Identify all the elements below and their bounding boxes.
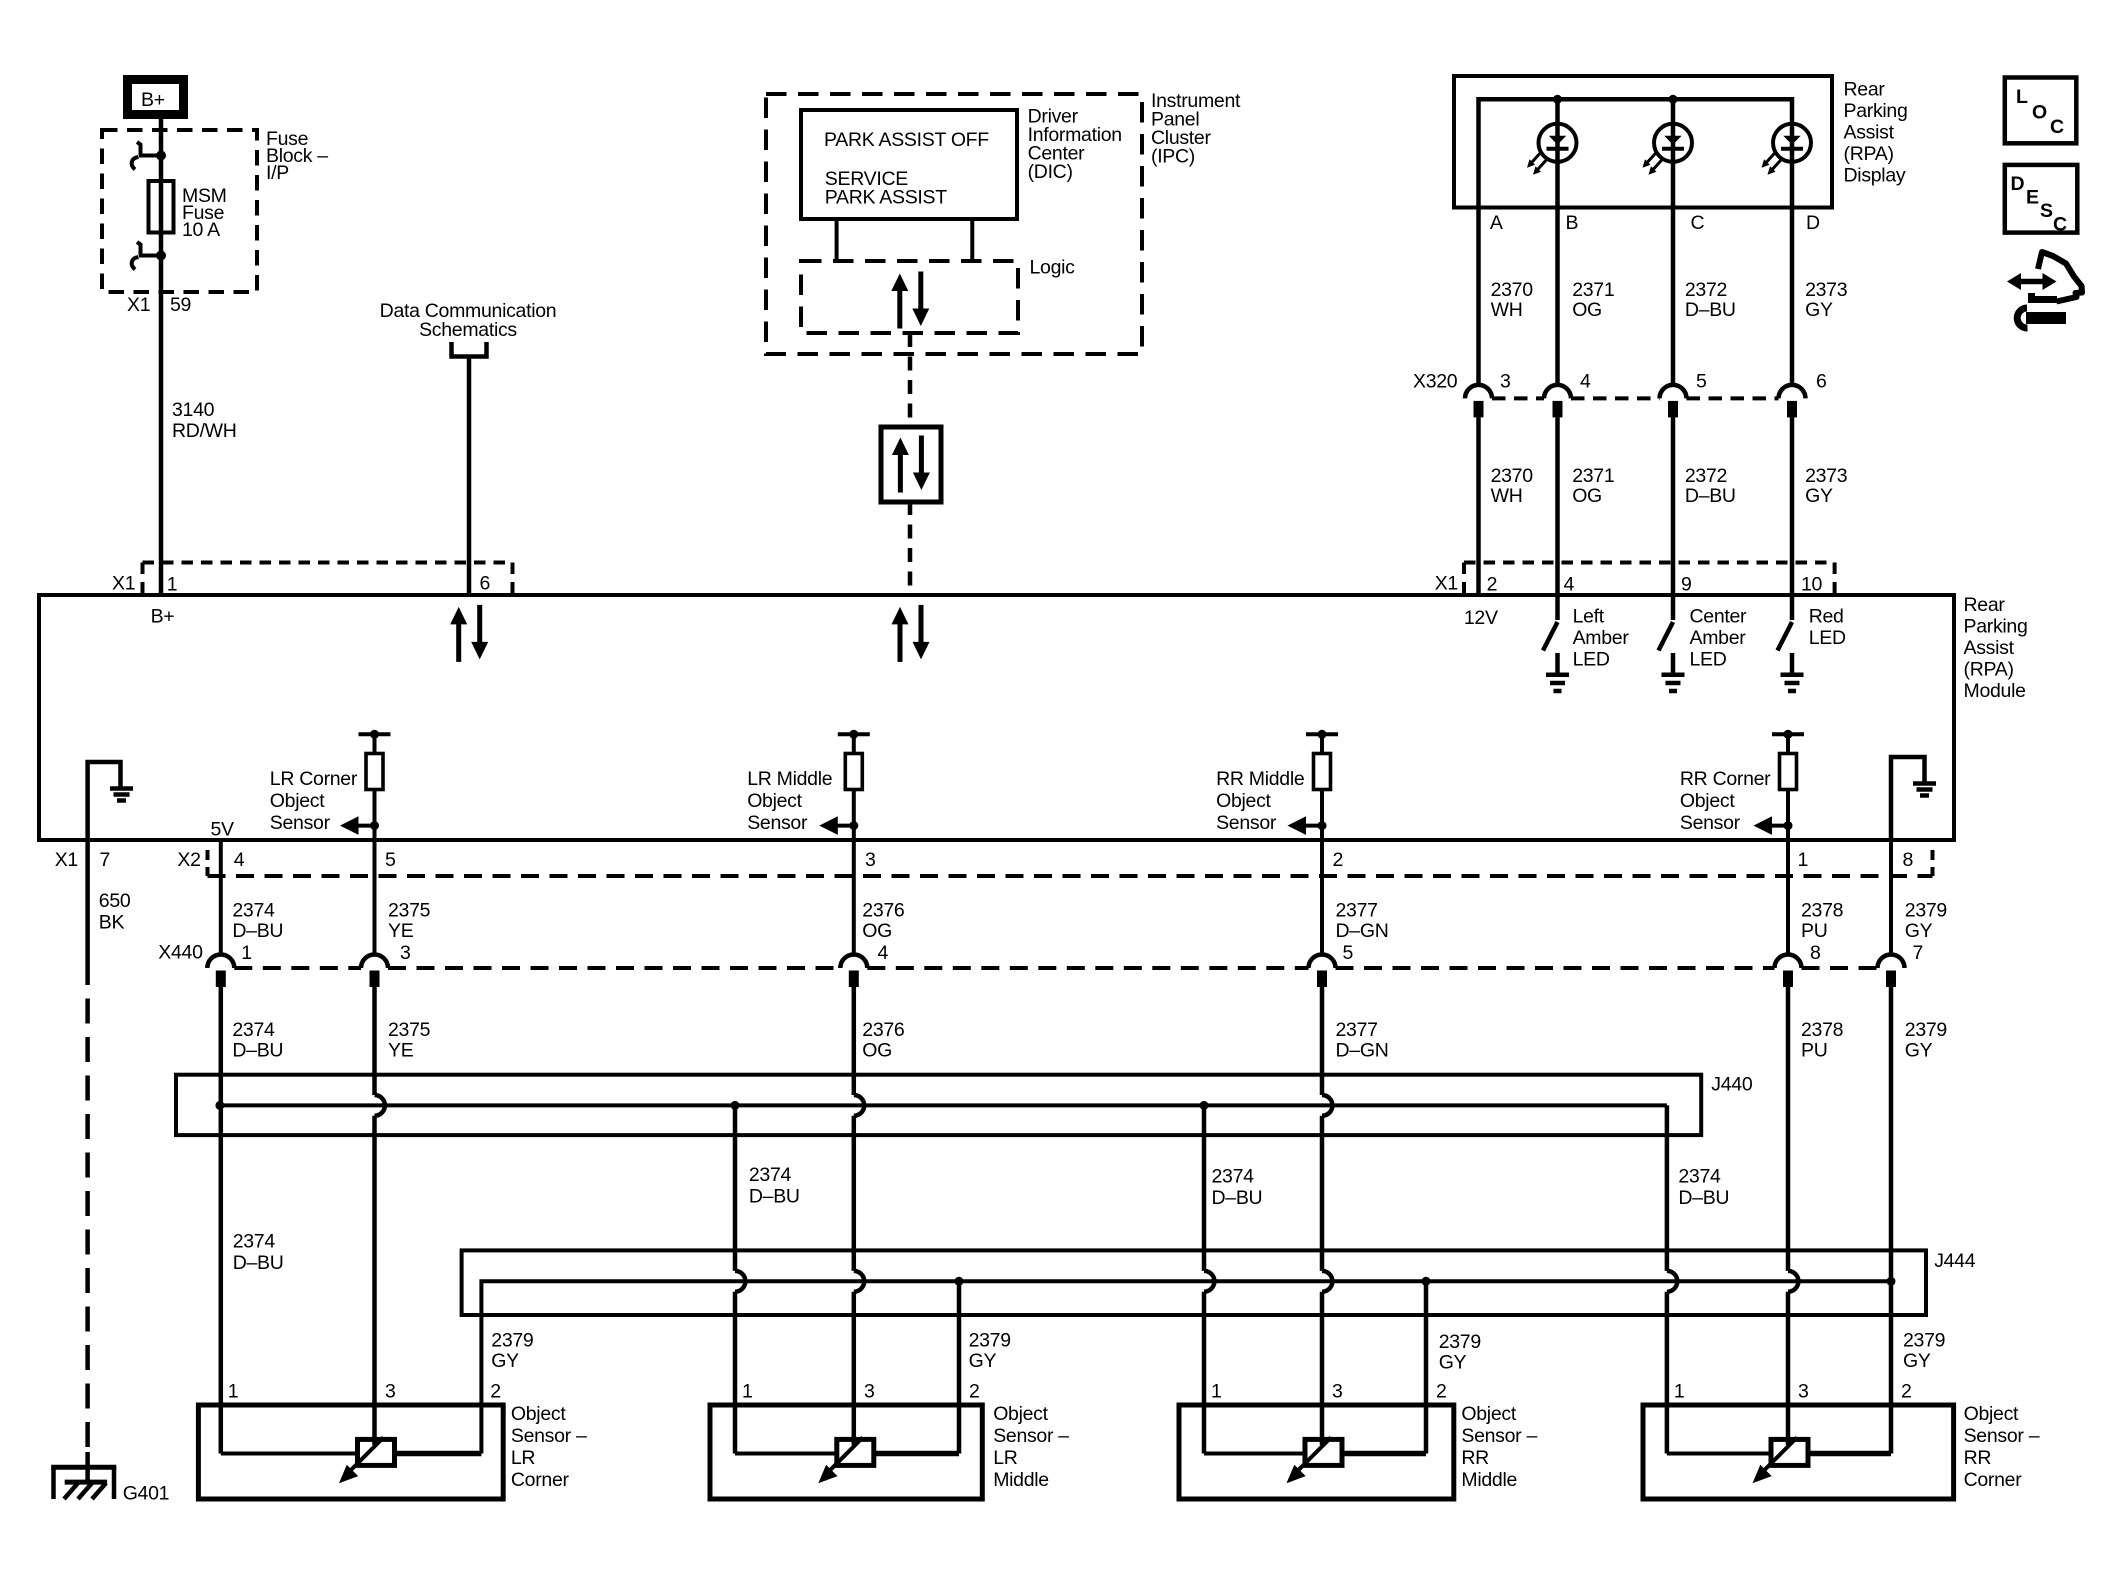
hop of 2376 over J444 bus [854, 1271, 864, 1292]
svg-text:B: B [1566, 212, 1579, 234]
junction node on bus at wire C [1669, 95, 1678, 104]
module serial arrows at IPC data line [892, 605, 930, 662]
svg-text:C: C [2053, 214, 2067, 236]
svg-text:7: 7 [100, 849, 111, 871]
branch wire 2374 to LR middle sensor pin 1 [733, 1105, 738, 1453]
svg-text:X2: X2 [177, 849, 200, 871]
display internal supply bus [1479, 99, 1793, 207]
svg-text:1: 1 [1211, 1381, 1222, 1403]
LR middle object sensor driver resistor [819, 730, 870, 840]
wire A X320 to module [1476, 417, 1481, 595]
object sensor RR corner box [1643, 1405, 1954, 1499]
center amber LED driver switch and ground [1659, 595, 1685, 691]
X2 right bracket tick [1931, 850, 1935, 876]
red LED driver switch and ground [1778, 595, 1804, 691]
svg-text:2: 2 [1436, 1381, 1447, 1403]
hop of RR middle branch over J444 bus [1204, 1271, 1214, 1292]
wire 2379 module to X440 [1889, 840, 1893, 955]
X440 terminal 8 [1775, 955, 1802, 988]
svg-text:3: 3 [1500, 371, 1511, 393]
svg-text:1: 1 [241, 942, 252, 964]
DESC reference icon [2005, 165, 2078, 236]
svg-text:D: D [1806, 212, 1820, 234]
LED center [1643, 124, 1693, 175]
svg-text:2: 2 [490, 1381, 501, 1403]
svg-text:7: 7 [1913, 942, 1924, 964]
svg-text:C: C [1691, 212, 1705, 234]
X320 dashed connector line [1492, 396, 1779, 400]
fuse MSM 10A [149, 181, 227, 241]
svg-text:L: L [2016, 86, 2028, 108]
svg-text:X1: X1 [127, 294, 150, 316]
svg-text:5V: 5V [211, 819, 235, 841]
object sensor RR middle box [1179, 1405, 1454, 1499]
svg-text:1: 1 [1798, 849, 1809, 871]
J440 internal bus [220, 1103, 1667, 1107]
svg-text:X320: X320 [1413, 371, 1458, 393]
wire D display to X320 [1790, 208, 1795, 385]
branch wire 2374 to RR middle sensor pin 1 [1202, 1105, 1207, 1453]
svg-text:RedLED: RedLED [1809, 606, 1846, 650]
svg-text:S: S [2040, 200, 2053, 222]
svg-text:J444: J444 [1934, 1250, 1976, 1272]
svg-text:J440: J440 [1711, 1074, 1753, 1096]
LR corner object sensor driver resistor [340, 730, 391, 840]
svg-text:D: D [2011, 173, 2025, 195]
X320 terminal A [1465, 385, 1492, 418]
wire 2376 X440 to LR middle sensor pin 3 [852, 985, 857, 1446]
svg-text:X440: X440 [158, 942, 203, 964]
wire 2374 X440 to LR corner sensor pin 1 [219, 985, 224, 1454]
serial data dashed wire upper [908, 333, 913, 427]
X2 left bracket tick [206, 850, 210, 876]
splice pack J440 box [176, 1075, 1701, 1135]
clip terminal top [132, 142, 166, 170]
svg-text:8: 8 [1810, 942, 1821, 964]
svg-text:X1: X1 [112, 573, 135, 595]
LED right [1762, 124, 1812, 175]
svg-text:12V: 12V [1464, 607, 1498, 629]
logic dashed box [801, 261, 1018, 333]
module internal ground right [1891, 757, 1936, 840]
X440 dashed connector line [234, 966, 1877, 970]
wire from B+ through fuse to module pin X1-1 [159, 119, 164, 595]
object sensor LR corner element [339, 1437, 395, 1483]
svg-text:4: 4 [1580, 371, 1591, 393]
object sensor LR middle element [818, 1437, 874, 1483]
svg-text:3: 3 [865, 849, 876, 871]
object sensor LR middle box [710, 1405, 982, 1499]
rear parking assist RPA module box [39, 595, 1954, 840]
X320 terminal D [1779, 385, 1806, 418]
wire 2377 X440 to RR middle sensor pin 3 [1320, 985, 1325, 1446]
hop of 2377 over J440 bus [1322, 1095, 1332, 1116]
X440 terminal 1 [207, 955, 234, 988]
svg-text:3: 3 [1332, 1381, 1343, 1403]
svg-text:1: 1 [1674, 1381, 1685, 1403]
module internal ground left [88, 762, 133, 840]
data communication schematics reference [380, 300, 557, 357]
splice pack J444 box [462, 1250, 1926, 1315]
X440 terminal 4 [840, 955, 867, 988]
svg-text:1: 1 [167, 574, 178, 596]
object sensor RR middle element [1287, 1437, 1343, 1483]
object sensor LR corner box [198, 1405, 503, 1499]
module serial arrows at pin 6 [450, 605, 488, 662]
branch wire 2374 to RR corner sensor pin 1 [1665, 1105, 1670, 1453]
svg-text:2: 2 [1487, 574, 1498, 596]
left amber LED driver switch and ground [1543, 595, 1569, 691]
clip terminal bottom [132, 242, 166, 270]
serial data dashed wire lower [908, 501, 913, 595]
svg-text:2: 2 [969, 1381, 980, 1403]
svg-text:2: 2 [1333, 849, 1344, 871]
rear parking assist RPA display box [1454, 76, 1832, 208]
ground wire 650 BK solid segment [85, 840, 90, 960]
svg-text:PARK ASSIST OFF: PARK ASSIST OFF [824, 129, 989, 151]
svg-text:X1: X1 [1435, 573, 1458, 595]
module connector X1 right dashed box [1464, 563, 1835, 594]
hop of RR corner branch over J444 bus [1667, 1271, 1677, 1292]
instrument panel cluster IPC dashed box [766, 94, 1142, 354]
svg-text:B+: B+ [151, 605, 175, 627]
svg-text:4: 4 [878, 942, 889, 964]
RR middle object sensor driver resistor [1288, 730, 1339, 840]
ground G401 [51, 1467, 116, 1499]
wire 2375 X440 to LR corner sensor pin 3 [372, 985, 377, 1446]
J444 internal bus [481, 1281, 1891, 1453]
svg-text:59: 59 [170, 294, 191, 316]
X2 dashed connector line [208, 874, 1933, 878]
svg-text:Logic: Logic [1030, 257, 1076, 279]
svg-text:2: 2 [1901, 1381, 1912, 1403]
wire D X320 to module [1790, 417, 1795, 595]
svg-text:C: C [2050, 116, 2064, 138]
X320 terminal C [1660, 385, 1687, 418]
object sensor RR corner element [1753, 1437, 1809, 1483]
wire C display to X320 [1671, 208, 1676, 385]
module connector X1 left dashed box [143, 563, 513, 594]
wire B inside display [1555, 99, 1560, 207]
junction node J440 bus at LR middle branch [731, 1101, 740, 1110]
X440 terminal 3 [361, 955, 388, 988]
wire C inside display [1671, 99, 1676, 207]
wire 2379 X440 to RR corner sensor pin 2 [1889, 985, 1894, 1454]
branch wire 2379 to LR middle sensor pin 2 [957, 1281, 962, 1453]
hop of 2375 over J440 bus [375, 1095, 385, 1116]
hop of LR middle branch over J444 bus [735, 1271, 745, 1292]
svg-text:3: 3 [864, 1381, 875, 1403]
fuse block I/P dashed box [102, 130, 257, 292]
junction node J444 bus at 2379 wire [1887, 1277, 1896, 1286]
5V supply wire to X2 pin 4 [219, 840, 223, 955]
ground wire 650 BK dashed segment [85, 960, 90, 1452]
wire 2375 module to X440 [373, 840, 377, 955]
svg-text:4: 4 [234, 849, 245, 871]
wire 2378 X440 to RR corner sensor pin 3 [1786, 985, 1791, 1446]
junction node J440 bus at 5V wire [215, 1101, 224, 1110]
wire A display to X320 [1476, 208, 1481, 385]
wire 2377 module to X440 [1320, 840, 1324, 955]
wire B X320 to module [1555, 417, 1560, 595]
wire B display to X320 [1555, 208, 1560, 385]
svg-text:10: 10 [1801, 574, 1823, 596]
junction node J444 bus at LR middle pin2 branch [955, 1277, 964, 1286]
LED left [1527, 124, 1577, 175]
X320 terminal B [1544, 385, 1571, 418]
svg-text:5: 5 [1696, 371, 1707, 393]
X440 terminal 5 [1309, 955, 1336, 988]
wire DIC to logic right [970, 219, 974, 261]
service category icon [2007, 252, 2082, 328]
battery feed B+ terminal [128, 80, 184, 115]
LOC reference icon [2005, 78, 2077, 144]
hop of 2378 over J444 bus [1788, 1271, 1798, 1292]
svg-text:B+: B+ [141, 89, 165, 111]
junction node J444 bus at RR middle pin2 branch [1422, 1277, 1431, 1286]
svg-text:3: 3 [1798, 1381, 1809, 1403]
svg-text:9: 9 [1681, 574, 1692, 596]
svg-text:A: A [1490, 212, 1503, 234]
svg-text:E: E [2026, 187, 2039, 209]
svg-text:1: 1 [228, 1381, 239, 1403]
junction node on bus at wire B [1553, 95, 1562, 104]
wire DIC to logic left [835, 219, 839, 261]
svg-text:3: 3 [385, 1381, 396, 1403]
svg-text:3: 3 [400, 942, 411, 964]
svg-text:1: 1 [742, 1381, 753, 1403]
logic serial data arrows [891, 272, 929, 329]
svg-text:Schematics: Schematics [419, 319, 517, 341]
branch wire 2379 to RR middle sensor pin 2 [1424, 1281, 1429, 1453]
junction node J440 bus at RR middle branch [1200, 1101, 1209, 1110]
serial data symbol box [881, 427, 941, 502]
hop of 2376 over J440 bus [854, 1095, 864, 1116]
svg-text:4: 4 [1564, 574, 1575, 596]
svg-text:8: 8 [1903, 849, 1914, 871]
svg-text:5: 5 [1343, 942, 1354, 964]
svg-text:PARK ASSIST: PARK ASSIST [825, 187, 947, 209]
svg-text:6: 6 [1816, 371, 1827, 393]
svg-text:6: 6 [480, 573, 491, 595]
svg-text:O: O [2032, 102, 2047, 124]
hop of 2377 over J444 bus [1322, 1271, 1332, 1292]
svg-text:G401: G401 [123, 1483, 170, 1505]
wire from data communication to module pin X1-6 [467, 357, 472, 596]
wire 2376 module to X440 [852, 840, 856, 955]
wire 2378 module to X440 [1786, 840, 1790, 955]
X440 terminal 7 [1878, 955, 1905, 988]
svg-text:5: 5 [385, 849, 396, 871]
RR corner object sensor driver resistor [1754, 730, 1805, 840]
svg-text:X1: X1 [55, 849, 78, 871]
wire C X320 to module [1671, 417, 1676, 595]
driver information center DIC display box [801, 110, 1017, 219]
